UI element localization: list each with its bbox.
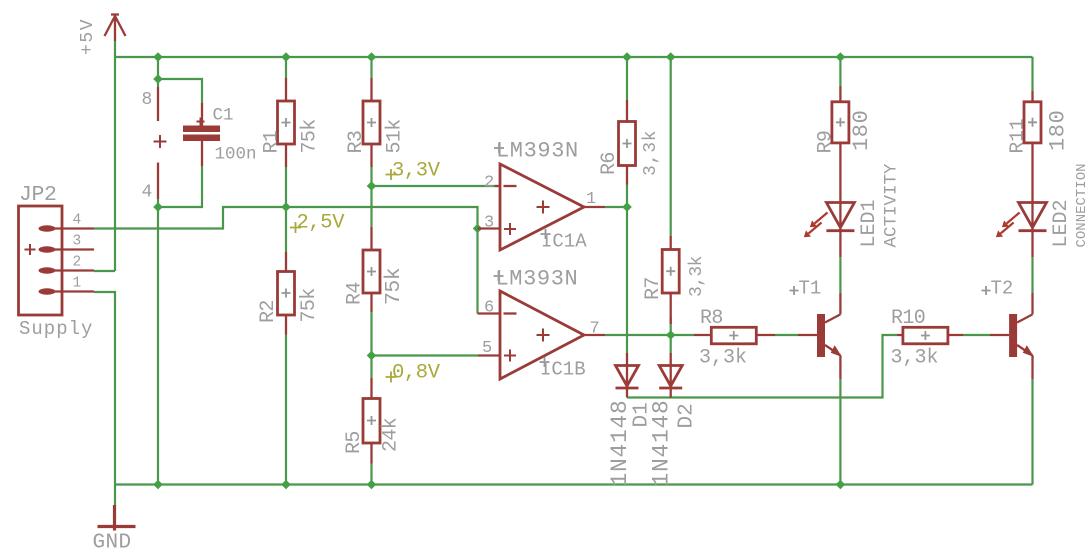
svg-text:R5: R5	[343, 431, 366, 454]
wire rail to R7	[670, 57, 672, 236]
net label 0,8V with origin cross	[386, 372, 397, 383]
wire output node to R8	[671, 334, 694, 336]
svg-text:LM393N: LM393N	[496, 267, 579, 292]
wire R8 to T1 base	[775, 334, 798, 336]
svg-text:R8: R8	[700, 307, 723, 330]
diode D2	[659, 353, 682, 398]
label T1 with origin cross	[790, 286, 799, 295]
LED LED2	[996, 203, 1047, 258]
label IC1B	[540, 357, 550, 367]
ground symbol GND	[98, 505, 136, 531]
svg-text:JP2: JP2	[19, 183, 57, 207]
wire T1 emitter to GND rail	[839, 379, 841, 484]
svg-text:Supply: Supply	[19, 318, 93, 340]
svg-text:0,8V: 0,8V	[392, 362, 441, 385]
svg-text:+5V: +5V	[78, 18, 98, 55]
wire R6 to IC1A output node and down to D1	[626, 185, 628, 354]
svg-text:1: 1	[73, 276, 82, 292]
resistor R8	[694, 327, 775, 344]
svg-text:3,3k: 3,3k	[641, 130, 661, 176]
svg-text:R7: R7	[642, 277, 665, 300]
svg-text:3,3k: 3,3k	[891, 347, 939, 370]
wire rail to R6	[626, 57, 628, 100]
wire JP2 pin 1 to GND rail	[94, 292, 115, 485]
node C1 bottom junction	[153, 202, 163, 212]
wire R5 to GND rail	[370, 464, 372, 485]
wire GND bottom rail	[115, 483, 1033, 485]
wire LED1 to T1 collector	[839, 257, 841, 293]
resistor R4	[363, 227, 380, 312]
net label 2,5V with origin cross	[290, 222, 301, 233]
node rail junction dots	[153, 52, 845, 62]
wire IC1A pin1 output to node	[605, 206, 627, 208]
label IC1A	[541, 229, 551, 239]
svg-text:GND: GND	[93, 532, 132, 555]
wire node to D2	[670, 335, 672, 353]
svg-text:R11: R11	[1007, 118, 1029, 153]
svg-text:2,5V: 2,5V	[297, 212, 346, 235]
wire R3 to 3.3V node	[370, 167, 372, 186]
resistor R5	[363, 378, 380, 464]
svg-text:R1: R1	[261, 130, 284, 153]
wire R7 to IC1B output node	[670, 317, 672, 335]
label LM393N IC1A with origin cross	[494, 143, 504, 153]
svg-text:ACTIVITY: ACTIVITY	[882, 163, 902, 248]
transistor T2	[990, 293, 1034, 379]
svg-text:3: 3	[73, 234, 82, 250]
wire 2.5V net from JP2 pin 4 to IC1A pin3 and IC1B pin6	[94, 207, 478, 314]
wire R4 to 0.8V node	[370, 312, 372, 356]
wire R10 to T2 base	[963, 334, 990, 336]
wire rail corner to R11	[1031, 57, 1033, 91]
svg-text:5: 5	[482, 339, 492, 358]
svg-text:180: 180	[849, 110, 874, 151]
wire LED2 to T2 collector	[1031, 257, 1033, 293]
connector JP2	[19, 206, 95, 315]
wire 0.8V net to IC1B pin5	[372, 354, 479, 356]
svg-text:100n: 100n	[215, 145, 257, 165]
resistor R9	[832, 86, 849, 231]
wire T2 emitter to GND rail	[1031, 379, 1033, 484]
wire C1 bottom link	[158, 166, 202, 207]
svg-text:C1: C1	[213, 106, 234, 126]
svg-text:75k: 75k	[382, 268, 406, 305]
label T2 with origin cross	[982, 286, 991, 295]
svg-text:IC1B: IC1B	[540, 359, 586, 381]
svg-text:6: 6	[484, 299, 494, 318]
resistor R7	[662, 236, 679, 324]
resistor R3	[363, 78, 380, 167]
node IC1A output junction	[622, 202, 632, 212]
svg-text:1N4148: 1N4148	[649, 399, 675, 486]
svg-text:3,3k: 3,3k	[699, 347, 747, 370]
node 3.3V junction	[367, 181, 377, 191]
capacitor C1	[183, 103, 220, 166]
node IC1B output junction	[666, 330, 676, 340]
wire R2 to GND rail	[285, 335, 287, 485]
svg-text:75k: 75k	[299, 119, 322, 153]
node 2.5V junction R1 R2	[281, 202, 291, 212]
svg-text:LED1: LED1	[858, 199, 881, 247]
supply symbol +5V arrow	[105, 14, 126, 41]
wire +5V vertical to JP2 pin 2	[94, 41, 115, 271]
svg-text:T2: T2	[991, 278, 1014, 300]
wire rail to R1	[285, 57, 287, 78]
wire diode line D1 D2 to R10	[627, 335, 897, 398]
svg-text:R2: R2	[257, 300, 280, 323]
svg-text:T1: T1	[799, 278, 822, 300]
op-amp IC1B	[478, 291, 606, 379]
svg-text:1: 1	[586, 190, 596, 209]
resistor R2	[278, 252, 295, 335]
wire R1 to 2.5V node	[285, 167, 287, 207]
wire 0.8V node to R5	[370, 356, 372, 379]
net label 3,3V with origin cross	[386, 169, 397, 180]
svg-text:IC1A: IC1A	[541, 231, 587, 253]
transistor T1	[798, 293, 842, 379]
node GND rail junction dots	[153, 480, 845, 490]
node IC1A pin3 junction	[473, 224, 483, 234]
svg-text:2: 2	[484, 174, 494, 193]
svg-text:3,3k: 3,3k	[687, 256, 707, 297]
svg-text:180: 180	[1046, 110, 1071, 151]
wire IC1 pin4 to GND rail	[157, 199, 159, 485]
svg-text:R9: R9	[815, 131, 838, 154]
wire C1 top link	[158, 79, 202, 103]
wire rail to R3	[370, 57, 372, 78]
op-amp power pins IC1P pin 8 and pin 4	[154, 87, 167, 199]
wire IC1B pin7 output to node	[605, 334, 671, 336]
svg-text:D2: D2	[676, 403, 699, 428]
wire GND stem	[114, 485, 116, 506]
svg-text:4: 4	[142, 183, 153, 203]
resistor R10	[897, 327, 963, 344]
svg-text:1N4148: 1N4148	[607, 399, 633, 486]
svg-text:7: 7	[590, 320, 600, 339]
wire 3.3V net to IC1A pin2	[372, 185, 498, 187]
svg-text:8: 8	[142, 90, 153, 110]
node C1 top junction	[153, 74, 163, 84]
svg-text:R10: R10	[891, 307, 925, 330]
svg-text:R3: R3	[345, 131, 368, 154]
pin numbers JP2 4 3 2 1	[73, 213, 82, 292]
wire +5V top rail	[115, 56, 1033, 58]
wire 3.3V node to R4	[370, 186, 372, 227]
svg-text:2: 2	[73, 255, 82, 271]
diode D1	[616, 353, 639, 398]
svg-text:R6: R6	[598, 152, 621, 175]
op-amp IC1A	[478, 164, 606, 250]
svg-text:51k: 51k	[384, 119, 407, 153]
resistor R6	[619, 100, 636, 185]
svg-text:24k: 24k	[380, 418, 403, 452]
svg-text:4: 4	[73, 213, 82, 229]
svg-text:3: 3	[484, 214, 494, 233]
svg-text:CONNECTION: CONNECTION	[1074, 163, 1088, 247]
wire rail to R9	[839, 57, 841, 86]
LED LED1	[804, 203, 855, 258]
resistor R11	[1024, 91, 1041, 231]
wire 2.5V node to R2	[285, 207, 287, 252]
label LM393N IC1B with origin cross	[494, 271, 504, 281]
svg-text:LM393N: LM393N	[496, 139, 579, 164]
svg-text:3,3V: 3,3V	[392, 160, 441, 183]
svg-text:LED2: LED2	[1050, 199, 1073, 247]
resistor R1	[278, 78, 295, 167]
wire rail to IC1 pin8 branch	[157, 57, 159, 87]
svg-text:R4: R4	[344, 282, 367, 305]
svg-text:75k: 75k	[298, 288, 321, 322]
node 0.8V junction	[367, 351, 377, 361]
